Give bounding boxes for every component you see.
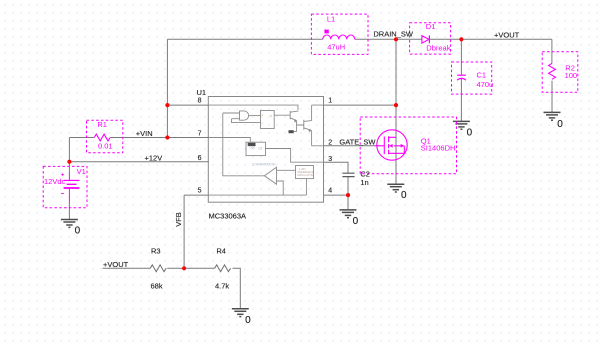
ground below pin4 junction: [340, 210, 357, 218]
svg-text:0: 0: [353, 216, 359, 227]
ground below R2: [544, 112, 561, 120]
svg-text:0.01: 0.01: [98, 142, 113, 151]
svg-text:0: 0: [245, 315, 251, 326]
svg-text:5: 5: [198, 188, 202, 195]
svg-text:8: 8: [198, 98, 202, 105]
svg-text:U1: U1: [197, 88, 207, 97]
resistor R4: [215, 265, 231, 272]
L1 selection box: [311, 14, 368, 54]
svg-text:1n: 1n: [360, 178, 368, 187]
U1 transistor T2: [304, 120, 312, 130]
svg-text:DRAIN_SW: DRAIN_SW: [373, 30, 414, 39]
svg-text:R4: R4: [216, 247, 226, 256]
svg-text:OSC: OSC: [249, 145, 255, 149]
U1 comparator output wire to AND: [223, 113, 265, 176]
wire pin2 GATE_SW: [323, 145, 375, 147]
junction dot pin4: [346, 193, 350, 197]
wire left vertical from rail to +VIN: [166, 39, 168, 137]
junction dot pin8: [165, 103, 169, 107]
svg-text:100: 100: [565, 71, 578, 80]
svg-text:+12V: +12V: [145, 153, 163, 162]
Q1 channel segments: [388, 136, 390, 154]
svg-text:R1: R1: [97, 120, 107, 129]
svg-text:GATE_SW: GATE_SW: [339, 137, 376, 146]
U1 AND output wire: [249, 115, 261, 117]
wire +VIN right of R1 to pin7: [110, 137, 209, 139]
ground below R4: [232, 309, 249, 317]
U1 internal resistor block: [289, 130, 294, 133]
U1 latch output wire: [274, 114, 290, 116]
svg-text:REGULATOR: REGULATOR: [298, 173, 314, 177]
wire +12V to pin6: [69, 161, 209, 163]
U1 T2 emitter arrowhead: [309, 129, 312, 132]
svg-text:3: 3: [328, 156, 332, 163]
wire +VIN left of R1: [69, 137, 94, 139]
ground below Q1: [387, 184, 404, 192]
svg-text:R3: R3: [151, 247, 161, 256]
Q1 drain and source links: [389, 137, 405, 153]
Q1 body arrows: [389, 144, 393, 148]
U1 comparator minus input wire: [277, 181, 284, 195]
L1 polarity dot: [324, 30, 328, 34]
wire pin4 stub: [323, 194, 348, 196]
C1 curved plate: [457, 78, 466, 80]
U1 internal pin8 rail: [209, 105, 298, 110]
MOSFET Q1 circle: [377, 130, 407, 160]
capacitor C1: [457, 74, 466, 76]
svg-text:4: 4: [328, 188, 332, 195]
ground below C1: [453, 121, 470, 129]
svg-text:C1: C1: [477, 71, 487, 80]
wire R2 top stem: [551, 39, 553, 63]
svg-text:VFB: VFB: [174, 212, 183, 227]
resistor R2: [549, 63, 556, 79]
wire R4 to corner and down to ground: [233, 268, 241, 308]
wire pin5 to VFB corner: [184, 194, 209, 196]
C1 selection box: [452, 62, 492, 94]
resistor R1: [94, 134, 110, 141]
U1 T2 collector to pin1: [312, 105, 323, 121]
D1 cathode bar: [428, 35, 430, 43]
svg-text:+VOUT: +VOUT: [103, 260, 129, 269]
diode D1: [422, 36, 429, 43]
U1 comparator triangle: [264, 167, 276, 184]
junction dot pin1 drain: [394, 103, 398, 107]
junction dot +VOUT: [459, 37, 463, 41]
IC U1 body box: [208, 97, 323, 203]
resistor R3: [150, 265, 166, 272]
R1 selection box: [87, 120, 123, 153]
U1 T1 emitter to T2 base: [294, 121, 304, 132]
wire R2 bottom to ground: [551, 81, 553, 113]
battery V1: [61, 173, 79, 204]
capacitor C2: [342, 173, 354, 176]
U1 AND input wires: [223, 113, 261, 123]
V1 selection box: [43, 166, 87, 207]
svg-text:6: 6: [198, 155, 202, 162]
wire top rail left segment: [167, 38, 322, 40]
svg-text:COMPARATOR: COMPARATOR: [252, 163, 276, 167]
U1 oscillator box: [246, 142, 266, 155]
svg-text:0: 0: [75, 225, 81, 236]
D1 selection box: [410, 23, 451, 54]
svg-text:+VOUT: +VOUT: [494, 31, 520, 40]
svg-text:1: 1: [328, 98, 332, 105]
U1 reference box: [296, 166, 314, 179]
wire +VOUT down to C1: [460, 39, 462, 75]
Q1 gate lead: [375, 137, 385, 155]
U1 comparator plus input wire: [277, 169, 296, 171]
svg-text:7: 7: [198, 130, 202, 137]
U1 T2 emitter to pin2: [312, 130, 323, 145]
svg-text:4.7k: 4.7k: [215, 281, 229, 290]
svg-text:CT: CT: [258, 147, 262, 151]
svg-text:L1: L1: [327, 14, 335, 23]
wire pin8 stub: [167, 104, 209, 106]
U1 T1 emitter arrowhead: [294, 119, 297, 122]
svg-text:47uH: 47uH: [327, 42, 345, 51]
Q1 selection box: [360, 117, 456, 174]
svg-text:SI1406DH: SI1406DH: [421, 144, 456, 153]
wire rail coil to diode: [355, 38, 422, 40]
U1 oscillator dark block: [248, 143, 256, 146]
svg-text:+VIN: +VIN: [136, 129, 153, 138]
junction dot +VIN: [165, 135, 169, 139]
svg-text:470u: 470u: [477, 80, 494, 89]
junction dot +12V: [67, 160, 71, 164]
wire junction to ground below IC: [347, 195, 349, 210]
wire battery to ground: [68, 204, 70, 220]
wire C2 bottom to pin4 junction: [347, 177, 349, 196]
R2 selection box: [542, 52, 578, 93]
ground below V1: [61, 220, 78, 228]
wire left column down to battery: [68, 138, 70, 173]
wire +VOUT to R3: [103, 267, 151, 269]
U1 transistor T1: [290, 111, 298, 121]
junction dot VFB divider: [182, 266, 186, 270]
svg-text:V1: V1: [77, 167, 86, 176]
wire R3 to junction to R4: [167, 267, 214, 269]
U1 reference box bottom wire: [305, 179, 307, 196]
wire pin1 to drain: [323, 104, 396, 106]
svg-text:MC33063A: MC33063A: [209, 212, 247, 221]
svg-text:0: 0: [557, 119, 563, 130]
svg-text:Dbreak: Dbreak: [426, 43, 450, 52]
svg-text:0: 0: [401, 190, 407, 201]
svg-text:68k: 68k: [151, 281, 163, 290]
wire pin3 to C2: [323, 162, 348, 173]
wire drain vertical DRAIN_SW to Q1 to ground: [395, 39, 397, 184]
U1 oscillator output to pin3: [266, 149, 324, 163]
U1 internal AND gate: [240, 111, 249, 120]
wire VFB vertical: [183, 195, 185, 268]
U1 pin5 internal rail: [209, 194, 306, 196]
junction dot DRAIN_SW: [394, 37, 398, 41]
svg-text:2: 2: [328, 139, 332, 146]
inductor L1: [323, 35, 355, 39]
U1 latch box: [261, 111, 275, 129]
svg-text:r: r: [262, 121, 263, 125]
wire C1 to ground: [460, 79, 462, 122]
U1 pin7 wire to oscillator: [209, 138, 250, 143]
svg-text:12Vdc: 12Vdc: [44, 177, 66, 186]
wire rail diode to R2 corner: [430, 38, 552, 40]
svg-text:0: 0: [467, 127, 473, 138]
